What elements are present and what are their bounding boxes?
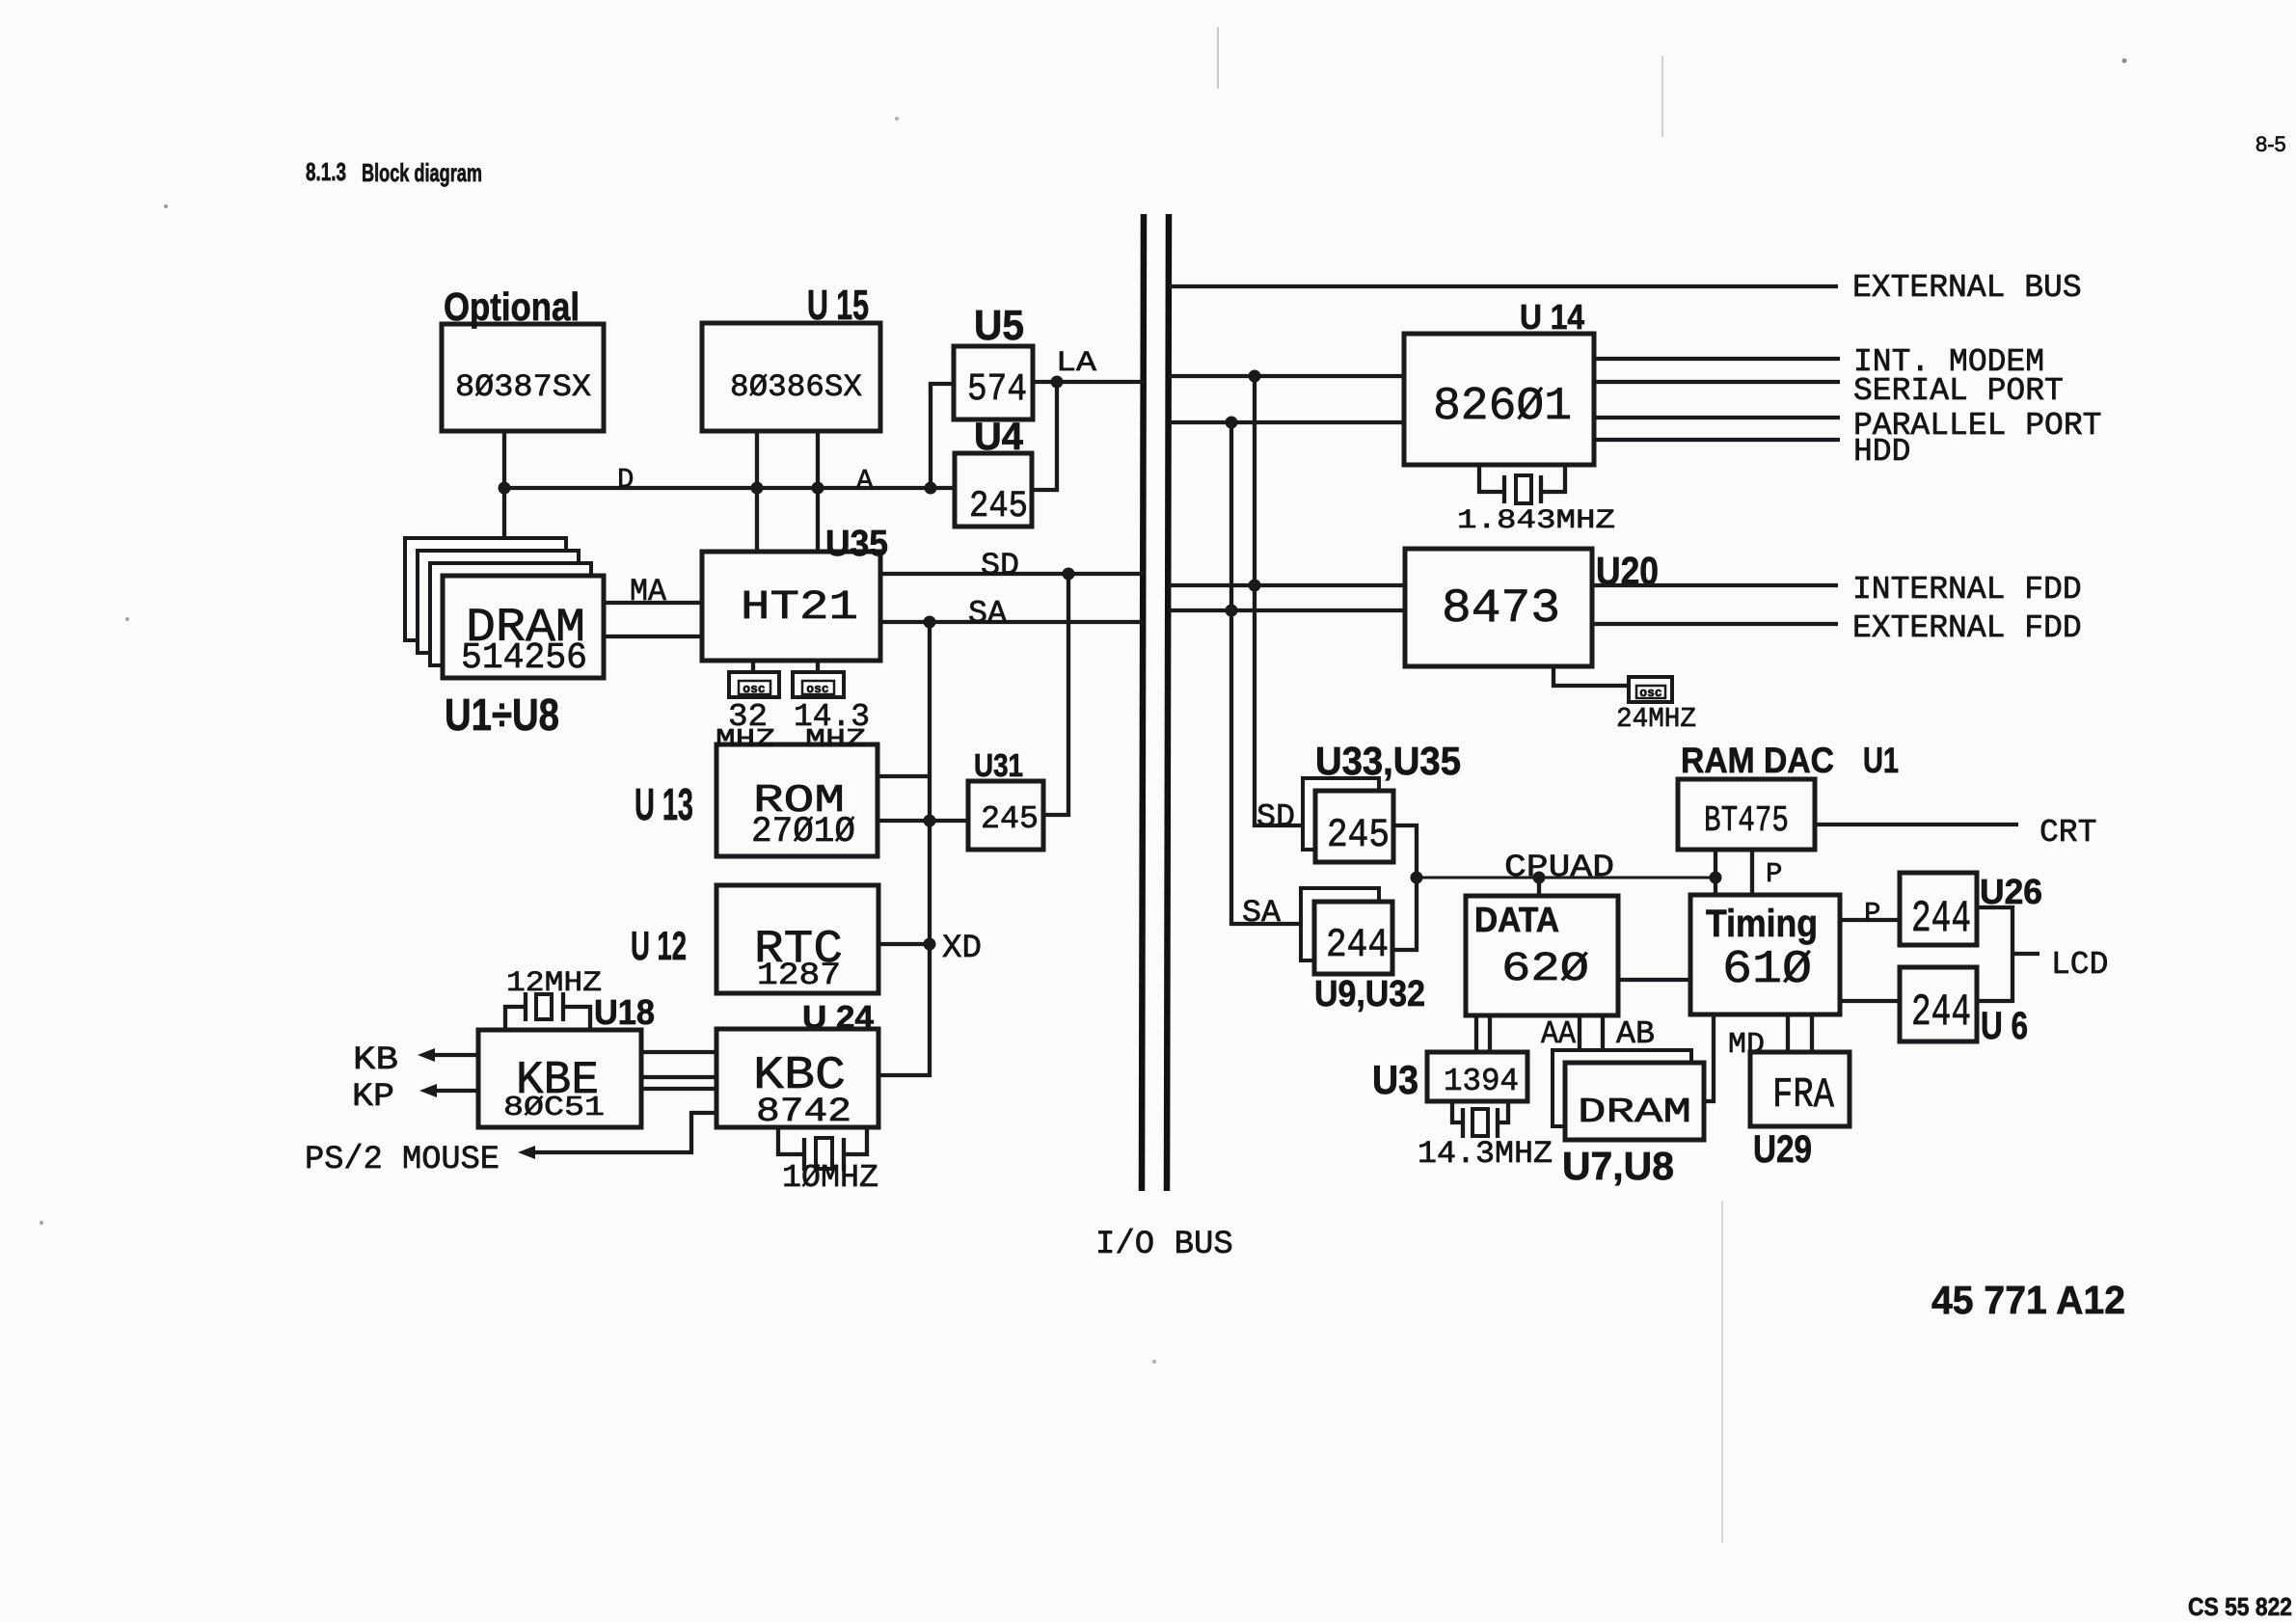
wire I/O bus to U14 upper	[1169, 370, 1404, 383]
svg-text:Timing: Timing	[1706, 903, 1818, 945]
svg-text:U18: U18	[594, 992, 655, 1032]
buffer U6 244	[1900, 967, 2028, 1047]
chip U29 FRA	[1750, 1052, 1850, 1171]
svg-text:U 15: U 15	[807, 282, 869, 329]
wire U14 to PARALLEL PORT	[1594, 408, 2101, 444]
svg-text:XD: XD	[942, 931, 982, 967]
chip U3 1394	[1372, 1052, 1527, 1102]
svg-text:AB: AB	[1616, 1016, 1655, 1052]
svg-text:RAM DAC: RAM DAC	[1681, 741, 1834, 780]
wire LCD bracket	[1977, 907, 2108, 1001]
chip U31 transceiver 245	[968, 747, 1043, 850]
svg-text:826Ø1: 826Ø1	[1433, 381, 1572, 433]
svg-text:LCD: LCD	[2051, 947, 2108, 983]
chip U5 latch 574	[954, 302, 1033, 419]
svg-text:MHZ: MHZ	[716, 726, 775, 755]
svg-text:U35: U35	[825, 524, 888, 564]
svg-text:DATA: DATA	[1474, 900, 1559, 939]
drawing number 45 771 A12	[1931, 1278, 2125, 1322]
chip U13 ROM 27010	[635, 744, 878, 856]
chip U15 CPU 80386SX	[702, 282, 880, 431]
svg-text:D: D	[617, 464, 634, 496]
wire PS/2 MOUSE arrow from KBC	[305, 1113, 716, 1178]
svg-text:SD: SD	[981, 548, 1019, 583]
wire from D bus down to DRAM bank	[502, 488, 506, 538]
wire from 80387SX down to D bus	[499, 431, 511, 495]
svg-text:KP: KP	[352, 1079, 394, 1116]
wire I/O bus to 8473 upper	[1169, 580, 1405, 592]
wire 8473 to INTERNAL FDD	[1592, 572, 2082, 608]
svg-text:SD: SD	[1256, 799, 1295, 835]
label I/O BUS	[1095, 1227, 1233, 1263]
svg-text:CRT: CRT	[2039, 815, 2096, 851]
svg-text:8ØC51: 8ØC51	[503, 1092, 605, 1123]
svg-text:Optional: Optional	[444, 284, 580, 329]
chip U12 RTC 1287	[631, 885, 878, 993]
svg-text:DRAM: DRAM	[1578, 1093, 1691, 1132]
wire DATA to Timing	[1618, 978, 1690, 982]
wires U15 to HT21	[757, 431, 818, 552]
wire 8473 to EXTERNAL FDD	[1592, 610, 2082, 646]
chip DATA 620	[1466, 896, 1618, 1015]
page number 8-5	[2255, 132, 2286, 156]
svg-text:INTERNAL FDD: INTERNAL FDD	[1852, 572, 2082, 608]
svg-text:Block diagram: Block diagram	[362, 158, 482, 187]
svg-text:1ØMHZ: 1ØMHZ	[782, 1160, 878, 1196]
wires Timing to FRA	[1788, 1014, 1812, 1052]
svg-text:EXTERNAL FDD: EXTERNAL FDD	[1852, 610, 2082, 646]
chip Timing 610	[1690, 895, 1840, 1014]
svg-text:27Ø1Ø: 27Ø1Ø	[751, 812, 855, 852]
wire BT475 to CRT	[1815, 815, 2096, 851]
svg-text:245: 245	[969, 485, 1028, 527]
buffer U26 244	[1900, 872, 2042, 945]
buffer stack U9,U32 244	[1301, 888, 1425, 1014]
svg-text:514256: 514256	[461, 637, 587, 679]
svg-text:244: 244	[1911, 894, 1971, 944]
svg-text:SERIAL PORT: SERIAL PORT	[1853, 373, 2064, 409]
svg-text:244: 244	[1911, 987, 1971, 1038]
wire U14 to SERIAL PORT	[1594, 373, 2064, 409]
oscillator 14.3MHZ under HT21	[793, 661, 870, 755]
svg-text:U4: U4	[974, 416, 1024, 458]
svg-text:61Ø: 61Ø	[1722, 944, 1812, 996]
wire EXTERNAL BUS	[1169, 270, 2082, 306]
svg-text:MHZ: MHZ	[805, 726, 866, 755]
chip U4 transceiver 245	[955, 416, 1032, 527]
svg-text:245: 245	[981, 801, 1039, 837]
DRAM bank U1-U8 514256	[405, 538, 604, 740]
svg-text:8-5: 8-5	[2255, 132, 2286, 156]
wire Timing MD to video DRAM	[1704, 1014, 1765, 1101]
svg-text:24MHZ: 24MHZ	[1616, 703, 1696, 735]
I/O bus right line	[1167, 214, 1169, 1191]
svg-text:U5: U5	[974, 302, 1024, 349]
svg-text:1394: 1394	[1444, 1064, 1519, 1099]
svg-text:MA: MA	[630, 574, 667, 609]
svg-text:FRA: FRA	[1772, 1071, 1834, 1120]
chip U20 FDC 8473	[1405, 549, 1659, 666]
svg-text:P: P	[1766, 858, 1782, 890]
wire vertical bus tap to SD buffers	[1255, 376, 1315, 835]
wire CPUAD	[1417, 850, 1722, 885]
svg-text:12MHZ: 12MHZ	[506, 967, 602, 1000]
video DRAM U7,U8	[1553, 1050, 1704, 1188]
svg-text:KB: KB	[353, 1042, 398, 1079]
svg-text:U9,U32: U9,U32	[1314, 974, 1425, 1014]
wires DATA to video DRAM with AA AB labels	[1541, 1015, 1655, 1052]
wires DATA to 1394	[1476, 1015, 1490, 1052]
svg-text:62Ø: 62Ø	[1501, 945, 1589, 992]
wire vertical bus tap to SA buffers	[1231, 422, 1314, 931]
wire from LA node down to U4 245 right side	[1032, 382, 1057, 490]
svg-text:U 12: U 12	[631, 923, 687, 968]
wire I/O bus to 8473 lower	[1169, 605, 1405, 617]
svg-text:LA: LA	[1056, 347, 1096, 380]
svg-text:U31: U31	[974, 747, 1023, 783]
svg-text:8742: 8742	[756, 1093, 851, 1131]
svg-text:1287: 1287	[757, 958, 841, 993]
chip U14 82601 I/O controller	[1404, 297, 1594, 465]
wire from U31 245 right side up to SD	[1043, 574, 1068, 815]
crystal 1.843MHZ below U14	[1457, 465, 1615, 536]
svg-text:AA: AA	[1541, 1016, 1576, 1052]
oscillator 32MHZ under HT21	[716, 661, 779, 755]
svg-text:14.3MHZ: 14.3MHZ	[1418, 1136, 1553, 1172]
svg-text:U 6: U 6	[1981, 1005, 2028, 1047]
wire KP arrow from KBE	[352, 1079, 478, 1116]
wire I/O bus to U14 lower	[1169, 417, 1404, 429]
svg-text:U7,U8: U7,U8	[1562, 1144, 1674, 1188]
svg-text:8Ø387SX: 8Ø387SX	[455, 369, 591, 405]
wires MA between DRAM and HT21	[604, 574, 702, 636]
wire Timing to U6 244	[1840, 999, 1900, 1003]
svg-text:45 771 A12: 45 771 A12	[1931, 1278, 2125, 1322]
wire XD vertical from SA down past ROM RTC to KBC	[878, 622, 982, 1075]
wire SA from HT21 to I/O bus	[880, 596, 1144, 632]
wire LA from U5 to I/O bus	[1033, 347, 1144, 389]
chip U18 KBE 80C51	[478, 992, 655, 1127]
svg-text:SA: SA	[968, 596, 1007, 632]
svg-text:574: 574	[967, 368, 1027, 412]
I/O bus left line	[1142, 214, 1144, 1191]
wire U14 to INT. MODEM	[1594, 344, 2044, 380]
wire SD from HT21 to I/O bus	[880, 548, 1144, 583]
buffer stack U33,U35 245	[1303, 739, 1461, 862]
svg-text:1.843MHZ: 1.843MHZ	[1457, 506, 1615, 536]
svg-text:I/O BUS: I/O BUS	[1095, 1227, 1233, 1263]
svg-text:HDD: HDD	[1853, 434, 1910, 470]
wire KB arrow from KBE	[353, 1042, 478, 1079]
crystal 14.3MHZ below 1394	[1418, 1101, 1553, 1172]
svg-text:244: 244	[1326, 922, 1389, 968]
svg-text:U 13: U 13	[635, 779, 693, 829]
chip optional FPU 80387SX	[442, 284, 604, 431]
svg-text:osc: osc	[743, 682, 766, 696]
svg-text:SA: SA	[1242, 895, 1282, 931]
svg-text:U29: U29	[1753, 1128, 1812, 1171]
svg-text:8.1.3: 8.1.3	[306, 157, 346, 186]
svg-text:8Ø386SX: 8Ø386SX	[730, 369, 862, 405]
chip U1 RAM DAC BT475	[1678, 741, 1899, 850]
wire jog from D bus up to U5 574	[931, 384, 954, 488]
wire CPUAD drop into DATA	[1537, 878, 1541, 896]
crystal 12MHZ above KBE	[505, 967, 602, 1030]
wire buffers right bracket to CPUAD	[1392, 825, 1423, 950]
wires BT475 to Timing	[1715, 850, 1782, 895]
wire Timing to U26 244 with P label	[1840, 898, 1900, 930]
svg-text:245: 245	[1327, 812, 1390, 858]
svg-text:osc: osc	[806, 682, 829, 696]
svg-text:A: A	[856, 465, 874, 497]
svg-text:8473: 8473	[1442, 581, 1560, 635]
wire U14 to HDD	[1594, 434, 1910, 470]
svg-text:CPUAD: CPUAD	[1504, 850, 1614, 885]
wires KBE to KBC	[641, 1052, 716, 1089]
svg-text:U 14: U 14	[1520, 297, 1584, 337]
chip U24 KBC 8742	[716, 999, 878, 1131]
svg-text:P: P	[1864, 898, 1880, 930]
svg-text:CS 55 822: CS 55 822	[2188, 1592, 2292, 1621]
svg-text:PS/2 MOUSE: PS/2 MOUSE	[305, 1142, 500, 1178]
wire D bus horizontal	[504, 464, 955, 497]
svg-text:U3: U3	[1372, 1057, 1418, 1102]
svg-text:EXTERNAL BUS: EXTERNAL BUS	[1852, 270, 2082, 306]
oscillator 24MHZ below 8473	[1553, 666, 1696, 735]
svg-text:HT21: HT21	[741, 583, 858, 631]
svg-text:U1: U1	[1863, 741, 1899, 780]
svg-text:osc: osc	[1639, 686, 1662, 700]
svg-text:U1÷U8: U1÷U8	[445, 689, 559, 740]
crystal 10MHZ below KBC	[778, 1127, 878, 1196]
chip U35 HT21 chipset	[702, 524, 888, 661]
document number CS 55 822	[2188, 1592, 2292, 1621]
page title 8.1.3 Block diagram	[306, 157, 482, 187]
svg-text:BT475: BT475	[1704, 800, 1789, 842]
